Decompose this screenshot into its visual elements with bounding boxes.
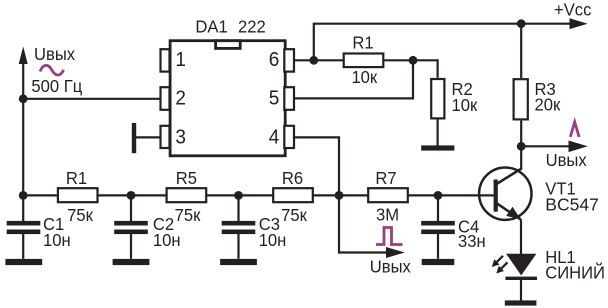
resistor R3 (20к) (520, 24, 522, 78)
ground LED (505, 300, 537, 305)
svg-text:BC547: BC547 (545, 195, 599, 215)
svg-text:6: 6 (269, 49, 280, 72)
label R2 (452, 80, 473, 99)
node rail pin4 (335, 191, 344, 200)
wire R2 to ground (437, 118, 439, 146)
label R3 (535, 80, 556, 99)
label 500 Гц (31, 76, 82, 95)
ground R2 (421, 145, 454, 150)
wire node to R1 and R1 to node (314, 59, 413, 61)
pulse symbol (376, 228, 403, 245)
resistor R5 (75к) (167, 188, 207, 202)
label 75к R1 (67, 205, 93, 224)
label R5 (176, 169, 197, 188)
ground C3 (220, 259, 257, 265)
LED light arrow 1 (492, 256, 503, 267)
wire LED to ground (520, 280, 522, 301)
svg-text:10к: 10к (452, 96, 478, 115)
svg-text:+Vcc: +Vcc (554, 0, 592, 19)
bottom rail wire (23, 194, 493, 196)
node rail C2 (127, 191, 136, 200)
node Vcc-R3 (517, 19, 526, 28)
node input-pin2 (19, 94, 28, 103)
pin 3 terminal bar (132, 123, 136, 153)
label R7 (375, 169, 396, 188)
label 10н C1 (43, 231, 71, 250)
svg-text:R5: R5 (176, 169, 197, 188)
node R1 out (409, 56, 418, 65)
svg-text:СИНИЙ: СИНИЙ (545, 263, 605, 282)
pin 3 number (175, 126, 186, 149)
label Uвых collector (546, 151, 588, 170)
svg-text:10н: 10н (43, 231, 71, 250)
label 10н C2 (153, 231, 181, 250)
svg-text:75к: 75к (175, 205, 201, 224)
resistor R1 bottom (75к) (58, 188, 98, 202)
svg-text:R1: R1 (66, 169, 87, 188)
pin 1 box (161, 49, 170, 71)
ground C1 (5, 259, 42, 265)
svg-text:Uвых: Uвых (546, 151, 588, 170)
label 10н C3 (259, 231, 287, 250)
svg-text:3М: 3М (376, 205, 399, 224)
svg-text:R1: R1 (352, 33, 373, 52)
capacitor C2 (10н) (130, 195, 132, 222)
LED cathode bar (505, 277, 537, 280)
label DA1 222 (195, 17, 227, 36)
label 75к R5 (175, 205, 201, 224)
pin 3 box (161, 126, 170, 148)
label BC547 (545, 195, 599, 215)
LED HL1 triangle (506, 254, 536, 276)
transistor Q1 VT1 circle (479, 168, 531, 220)
label 10к R2 (452, 96, 478, 115)
ground C2 (113, 259, 150, 265)
resistor R7 (3М) (368, 188, 408, 202)
node rail C3 (234, 191, 243, 200)
pin 5 number (269, 87, 280, 110)
label R1 (352, 33, 373, 52)
label C2 (153, 215, 174, 234)
pin 2 box (161, 87, 170, 110)
capacitor C1 (10н) (22, 195, 24, 222)
svg-text:500 Гц: 500 Гц (31, 76, 82, 95)
IC DA1 222 body (170, 41, 285, 156)
wire input vertical (22, 58, 24, 195)
wire riser to +Vcc rail (314, 24, 571, 61)
collector diagonal (497, 169, 522, 184)
emitter diagonal (497, 203, 522, 220)
svg-text:1: 1 (175, 49, 186, 72)
pin 2 number (175, 87, 186, 110)
pulse output arrow head (386, 247, 405, 258)
pin 6 box (284, 49, 294, 71)
wire pin 6 to node (294, 59, 314, 61)
pin 3 stub wire (136, 136, 161, 138)
wire collector output arrow (521, 145, 570, 147)
wire pulse output (339, 195, 387, 252)
label Uвых pulse (370, 257, 412, 276)
pin 5 box (284, 87, 294, 110)
capacitor C4 (33н) (437, 195, 439, 222)
label СИНИЙ (545, 263, 605, 282)
wire node down to pin 5 (294, 60, 413, 98)
label 20к (535, 95, 561, 114)
svg-text:75к: 75к (67, 205, 93, 224)
wire R3 to collector (520, 121, 522, 170)
svg-text:5: 5 (269, 87, 280, 110)
svg-text:222: 222 (238, 17, 266, 36)
emitter arrow head (506, 207, 520, 220)
LED light arrow 2 (496, 262, 507, 273)
label C3 (259, 215, 280, 234)
svg-text:10к: 10к (351, 67, 377, 86)
spike symbol (570, 122, 579, 137)
label HL1 (545, 247, 575, 266)
label C4 (458, 217, 479, 236)
ground C4 (422, 259, 455, 265)
svg-text:R7: R7 (375, 169, 396, 188)
label R1 bottom (66, 169, 87, 188)
svg-text:2: 2 (175, 87, 186, 110)
node rail C1 (19, 191, 28, 200)
pin 6 number (269, 49, 280, 72)
label 3М (376, 205, 399, 224)
label 10к (351, 67, 377, 86)
sine symbol (40, 65, 64, 75)
svg-text:4: 4 (269, 126, 280, 149)
svg-text:10н: 10н (259, 231, 287, 250)
pin 4 number (269, 126, 280, 149)
node rail C4 (434, 191, 443, 200)
svg-text:20к: 20к (535, 95, 561, 114)
svg-text:Uвых: Uвых (34, 45, 76, 64)
wire pin 4 riser (294, 137, 339, 195)
label VT1 (545, 179, 575, 198)
wire emitter to LED (520, 220, 522, 254)
label Uвых input (34, 45, 76, 64)
resistor R2 (10к) (431, 79, 444, 118)
node pin6 riser (309, 56, 318, 65)
base bar (494, 180, 498, 212)
wire to pin 2 (23, 98, 160, 100)
svg-text:DA1: DA1 (195, 17, 227, 36)
resistor R6 (75к) (273, 188, 313, 202)
svg-text:3: 3 (175, 126, 186, 149)
notch tab (216, 41, 241, 49)
resistor R1 (10к) (344, 54, 384, 68)
label +Vcc (554, 0, 592, 19)
collector output arrow head (569, 141, 588, 153)
label 33н C4 (458, 232, 486, 251)
+Vcc arrow (570, 18, 588, 29)
svg-text:75к: 75к (281, 205, 307, 224)
label 75к R6 (281, 205, 307, 224)
pin 1 number (175, 49, 186, 72)
capacitor C3 (10н) (237, 195, 239, 222)
wire node to R2 top (413, 60, 438, 78)
svg-text:R6: R6 (282, 169, 303, 188)
svg-text:Uвых: Uвых (370, 257, 412, 276)
svg-text:33н: 33н (458, 232, 486, 251)
label C1 (43, 215, 64, 234)
label R6 (282, 169, 303, 188)
svg-text:10н: 10н (153, 231, 181, 250)
input arrow up (19, 47, 28, 65)
pin 4 box (284, 126, 294, 148)
node collector output (517, 142, 526, 151)
